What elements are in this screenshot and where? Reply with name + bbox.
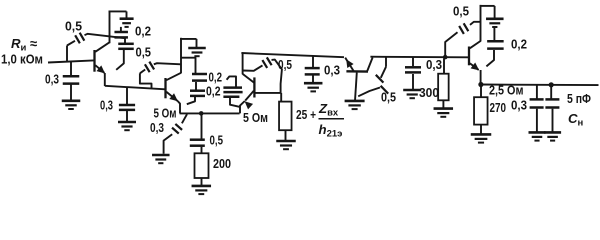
svg-text:h21э: h21э — [319, 122, 343, 140]
svg-text:0,5: 0,5 — [65, 19, 82, 34]
svg-text:0,5: 0,5 — [210, 133, 224, 148]
svg-text:Cн: Cн — [568, 111, 584, 129]
svg-text:5 Ом: 5 Ом — [243, 110, 268, 125]
svg-text:300: 300 — [419, 85, 439, 100]
svg-text:0,5: 0,5 — [278, 57, 292, 72]
svg-text:1,0 кОм: 1,0 кОм — [1, 52, 43, 67]
svg-text:0,5: 0,5 — [381, 90, 396, 105]
svg-text:270: 270 — [490, 100, 507, 115]
svg-text:0,3: 0,3 — [426, 57, 442, 72]
svg-text:25 +: 25 + — [296, 107, 316, 122]
svg-text:0,3: 0,3 — [100, 98, 113, 113]
svg-text:0,2: 0,2 — [511, 37, 527, 52]
svg-text:0,2: 0,2 — [209, 70, 223, 85]
svg-text:0,5: 0,5 — [453, 4, 469, 19]
svg-text:0,3: 0,3 — [150, 120, 164, 135]
svg-text:5 Ом: 5 Ом — [154, 105, 177, 120]
svg-text:0,3: 0,3 — [511, 98, 527, 113]
svg-text:0,2: 0,2 — [206, 84, 221, 99]
svg-text:0,3: 0,3 — [324, 63, 340, 78]
svg-text:200: 200 — [213, 156, 231, 171]
svg-text:5 пФ: 5 пФ — [567, 91, 591, 106]
svg-text:Zвх: Zвх — [318, 101, 339, 119]
svg-text:0,2: 0,2 — [135, 24, 151, 39]
svg-text:2,5 Ом: 2,5 Ом — [489, 83, 524, 98]
svg-text:0,5: 0,5 — [136, 45, 152, 60]
svg-text:0,3: 0,3 — [45, 72, 59, 87]
